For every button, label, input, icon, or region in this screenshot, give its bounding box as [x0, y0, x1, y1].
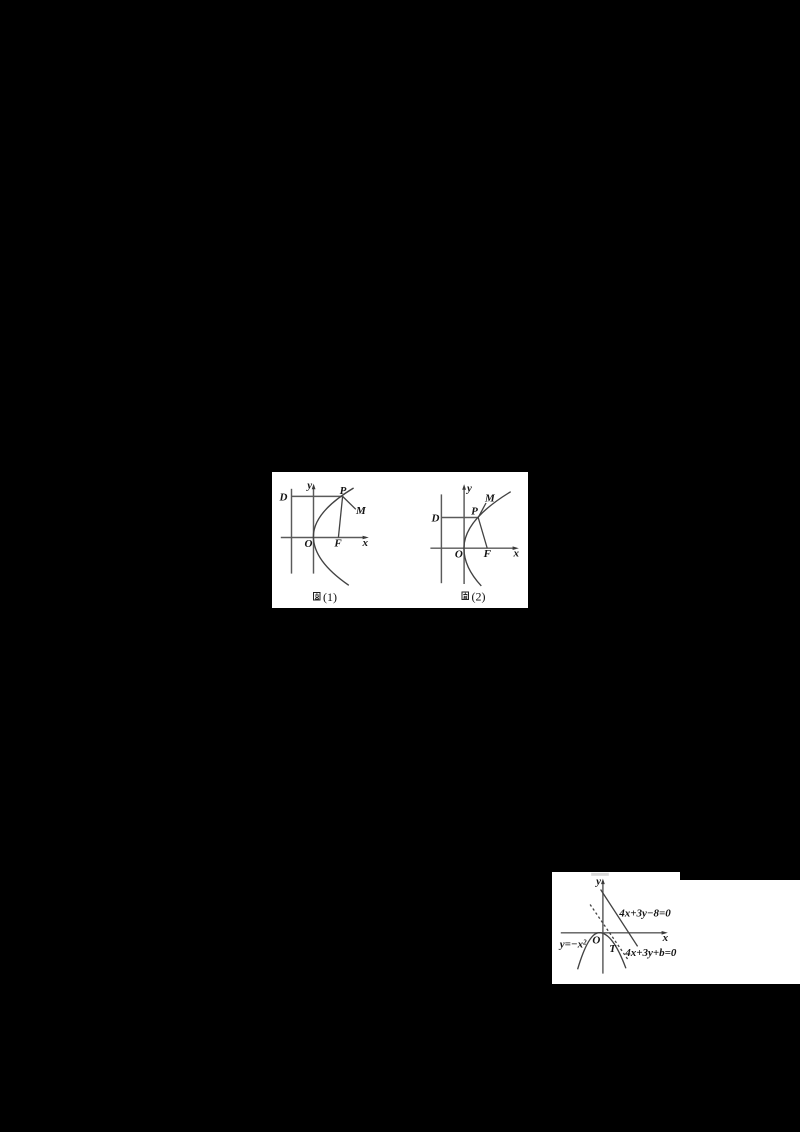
svg-text:O: O — [305, 538, 313, 550]
svg-text:4x+3y−8=0: 4x+3y−8=0 — [618, 908, 671, 920]
svg-text:x: x — [361, 537, 368, 549]
svg-text:(2): (2) — [472, 589, 486, 603]
fig1 directrix vertical line — [291, 489, 293, 574]
fig2 x-axis — [430, 547, 516, 549]
fig3 x-axis arrowhead — [662, 931, 668, 935]
svg-text:y=−x2: y=−x2 — [558, 939, 587, 951]
fig3 solid line 4x+3y-8=0 — [601, 890, 638, 947]
fig2 x-axis arrowhead — [513, 546, 519, 550]
svg-text:M: M — [484, 492, 496, 504]
fig3 y-axis arrowhead — [601, 879, 605, 885]
fig3 parabola y=-x^2 — [578, 933, 626, 970]
fig1 y-axis arrowhead — [312, 484, 316, 490]
fig3 dashed line 4x+3y+b=0 — [590, 905, 629, 961]
fig1 x-axis — [281, 537, 366, 539]
white panel: figures (1) and (2) — [272, 472, 528, 608]
fig2 parabola — [464, 492, 511, 586]
fig2 y-axis arrowhead — [462, 484, 466, 490]
svg-text:x: x — [513, 547, 520, 559]
svg-text:y: y — [465, 483, 472, 495]
svg-text:O: O — [455, 548, 463, 560]
fig2 caption glyph 图 (hand drawn) — [462, 592, 469, 600]
white panel: bottom-right figure, left part — [552, 872, 680, 984]
fig2 segment PF — [478, 518, 487, 549]
svg-text:y: y — [594, 875, 601, 887]
svg-text:x: x — [662, 932, 669, 944]
fig1 y-axis — [313, 487, 315, 574]
fig1 parabola — [313, 488, 353, 585]
fig1 caption glyph 图 (hand drawn) — [314, 593, 321, 601]
svg-text:D: D — [279, 492, 288, 504]
fig1 segment DP — [292, 495, 343, 497]
fig2 segment DP — [441, 517, 478, 519]
svg-text:M: M — [355, 505, 367, 517]
svg-text:P: P — [471, 506, 478, 518]
fig3 faint scan smudge above y-axis — [591, 873, 609, 876]
svg-text:(1): (1) — [323, 590, 337, 604]
white panel: bottom-right figure, right part — [680, 880, 800, 984]
fig1 segment PF — [338, 496, 342, 537]
fig2 y-axis — [463, 487, 465, 584]
svg-text:4x+3y+b=0: 4x+3y+b=0 — [624, 947, 677, 959]
fig3 x-axis — [561, 932, 665, 934]
svg-text:D: D — [431, 513, 440, 525]
fig2 segment PM — [478, 503, 486, 518]
fig2 directrix vertical line — [440, 494, 442, 583]
svg-text:F: F — [483, 548, 492, 560]
svg-text:O: O — [592, 935, 600, 947]
fig1 segment PM — [343, 496, 356, 509]
fig3 y-axis — [602, 881, 604, 974]
svg-text:P: P — [340, 485, 347, 497]
svg-text:y: y — [305, 480, 312, 492]
fig1 x-axis arrowhead — [363, 536, 369, 540]
svg-text:F: F — [333, 538, 342, 550]
